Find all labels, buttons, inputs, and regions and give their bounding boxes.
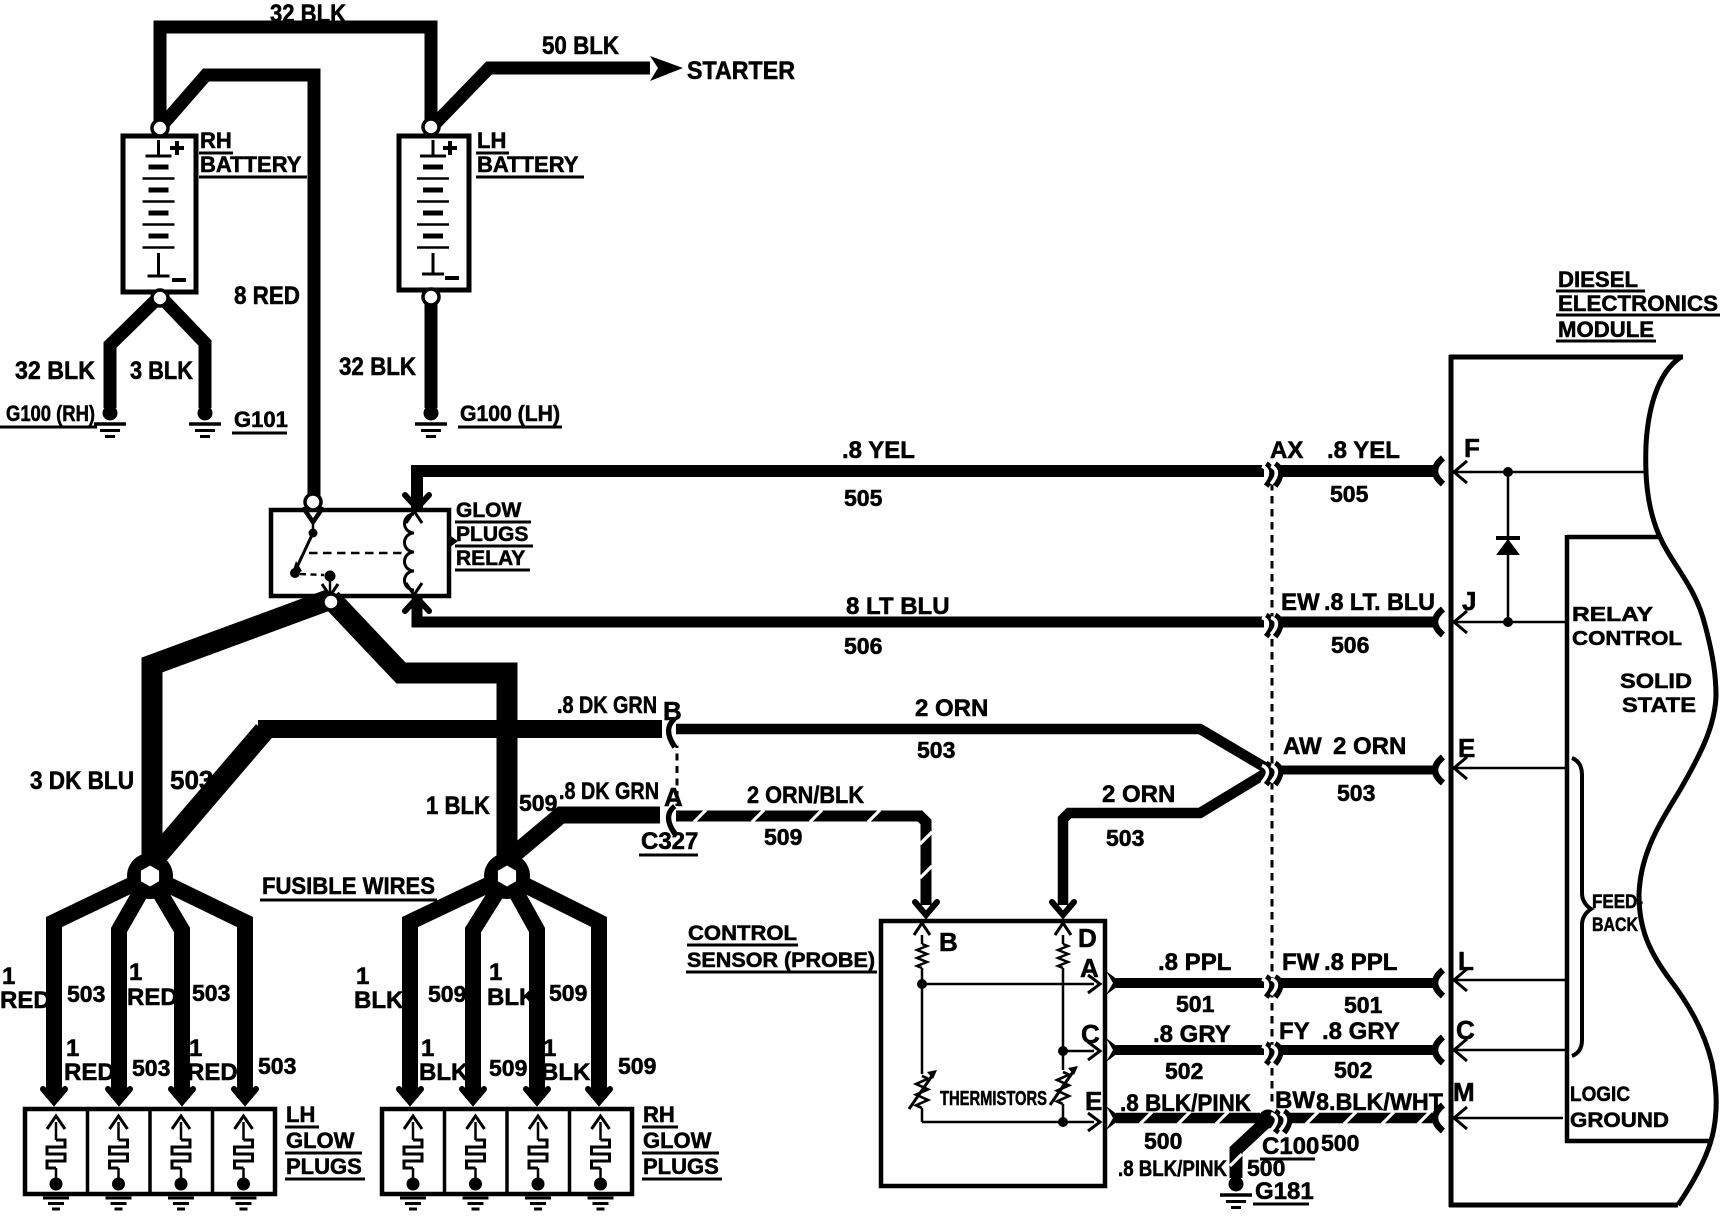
svg-text:GLOW: GLOW [643,1128,712,1153]
svg-text:1: 1 [189,1035,202,1062]
svg-text:503: 503 [67,981,105,1007]
svg-text:G100 (LH): G100 (LH) [460,401,560,426]
svg-text:B: B [939,927,958,957]
svg-text:G101: G101 [234,407,288,432]
svg-text:.8 PPL: .8 PPL [1158,949,1231,976]
svg-text:C: C [1081,1019,1100,1049]
svg-text:503: 503 [1337,780,1375,806]
svg-text:.8 GRY: .8 GRY [1322,1018,1400,1045]
svg-text:509: 509 [618,1053,656,1079]
svg-text:32 BLK: 32 BLK [15,357,95,385]
svg-text:B: B [663,696,682,726]
svg-text:505: 505 [844,485,883,511]
svg-text:1: 1 [489,959,502,986]
svg-text:32 BLK: 32 BLK [270,0,346,28]
svg-text:2 ORN/BLK: 2 ORN/BLK [747,782,865,809]
svg-text:GLOW: GLOW [456,499,521,522]
svg-text:BLK: BLK [354,987,404,1014]
svg-text:STARTER: STARTER [687,57,795,85]
svg-text:BLK: BLK [419,1059,469,1086]
svg-text:1: 1 [129,959,142,986]
svg-text:M: M [1453,1077,1475,1107]
svg-text:1: 1 [66,1035,79,1062]
svg-text:D: D [1078,923,1097,953]
svg-text:503: 503 [917,737,955,763]
svg-text:8 LT BLU: 8 LT BLU [846,593,950,620]
svg-text:FUSIBLE WIRES: FUSIBLE WIRES [262,873,435,900]
svg-text:.8 LT. BLU: .8 LT. BLU [1324,589,1435,616]
svg-text:3 BLK: 3 BLK [130,357,193,385]
svg-text:509: 509 [764,824,802,850]
svg-text:AX: AX [1270,437,1303,464]
svg-text:L: L [1458,946,1474,976]
svg-text:2 ORN: 2 ORN [1102,781,1175,808]
svg-text:FEED-: FEED- [1592,892,1643,913]
svg-text:BACK: BACK [1592,915,1638,936]
svg-text:506: 506 [844,633,882,659]
svg-text:RED: RED [64,1059,115,1086]
svg-text:C: C [1456,1015,1475,1045]
svg-text:BLK: BLK [487,984,537,1011]
svg-text:509: 509 [549,980,587,1006]
svg-text:A: A [664,782,683,812]
svg-text:50 BLK: 50 BLK [542,32,619,60]
svg-text:MODULE: MODULE [1558,317,1654,342]
svg-text:GLOW: GLOW [286,1128,355,1153]
svg-text:DIESEL: DIESEL [1558,267,1638,292]
svg-text:.8 PPL: .8 PPL [1324,949,1397,976]
svg-text:THERMISTORS: THERMISTORS [940,1088,1047,1110]
svg-text:3 DK BLU: 3 DK BLU [30,767,134,795]
svg-text:503: 503 [192,980,230,1006]
svg-text:503: 503 [170,765,213,795]
svg-text:J: J [1462,586,1476,616]
svg-text:509: 509 [519,790,557,816]
svg-text:8.BLK/WHT: 8.BLK/WHT [1316,1089,1443,1116]
svg-text:G100 (RH): G100 (RH) [6,401,95,426]
svg-text:1: 1 [356,963,369,990]
svg-text:502: 502 [1334,1057,1372,1083]
svg-text:LH: LH [286,1102,315,1127]
svg-text:503: 503 [132,1055,170,1081]
svg-text:501: 501 [1176,991,1215,1017]
svg-text:1 BLK: 1 BLK [426,792,490,820]
svg-text:BLK: BLK [541,1059,591,1086]
svg-text:E: E [1085,1086,1102,1116]
svg-text:RED: RED [127,984,178,1011]
svg-text:509: 509 [489,1055,527,1081]
svg-text:503: 503 [1106,825,1144,851]
svg-text:.8 BLK/PINK: .8 BLK/PINK [1120,1090,1252,1117]
svg-text:AW: AW [1283,733,1322,760]
svg-text:500: 500 [1144,1128,1182,1154]
svg-text:A: A [1080,953,1099,983]
svg-text:.8 YEL: .8 YEL [1327,437,1400,464]
svg-text:RH: RH [643,1102,675,1127]
svg-text:GROUND: GROUND [1570,1109,1669,1132]
svg-text:BATTERY: BATTERY [477,152,579,177]
svg-text:503: 503 [258,1053,296,1079]
svg-text:BW: BW [1275,1087,1315,1114]
svg-text:F: F [1464,433,1480,463]
svg-text:.8 GRY: .8 GRY [1153,1021,1231,1048]
svg-text:509: 509 [428,981,466,1007]
svg-text:32 BLK: 32 BLK [339,353,416,381]
svg-text:1: 1 [2,963,15,990]
svg-text:RELAY: RELAY [456,547,525,570]
svg-text:2 ORN: 2 ORN [1333,733,1406,760]
svg-text:1: 1 [543,1035,556,1062]
svg-text:SENSOR (PROBE): SENSOR (PROBE) [687,949,875,972]
svg-text:CONTROL: CONTROL [688,922,797,945]
svg-text:G181: G181 [1255,1178,1314,1205]
svg-text:8 RED: 8 RED [234,282,300,310]
svg-text:PLUGS: PLUGS [286,1154,362,1179]
svg-text:2 ORN: 2 ORN [915,695,988,722]
svg-text:FW: FW [1282,949,1320,976]
svg-text:.8 BLK/PINK: .8 BLK/PINK [1118,1156,1227,1181]
svg-text:.8 DK GRN: .8 DK GRN [557,692,657,719]
svg-text:STATE: STATE [1622,694,1696,717]
svg-text:BATTERY: BATTERY [200,152,302,177]
svg-text:E: E [1458,733,1475,763]
svg-text:.8 DK GRN: .8 DK GRN [559,778,659,805]
svg-text:500: 500 [1321,1130,1359,1156]
svg-text:RED: RED [187,1059,238,1086]
svg-text:LH: LH [477,128,506,153]
svg-text:PLUGS: PLUGS [456,523,528,546]
svg-text:C327: C327 [641,828,698,855]
svg-text:501: 501 [1344,992,1383,1018]
svg-text:RED: RED [0,987,51,1014]
svg-text:PLUGS: PLUGS [643,1154,719,1179]
svg-text:C100: C100 [1262,1133,1319,1160]
svg-text:LOGIC: LOGIC [1570,1083,1630,1106]
svg-text:EW: EW [1281,589,1320,616]
svg-text:RH: RH [200,128,232,153]
svg-text:CONTROL: CONTROL [1572,628,1682,650]
svg-text:1: 1 [421,1035,434,1062]
svg-text:ELECTRONICS: ELECTRONICS [1558,291,1718,316]
svg-text:RELAY: RELAY [1572,604,1654,626]
svg-text:505: 505 [1330,481,1369,507]
svg-text:502: 502 [1165,1058,1203,1084]
svg-text:506: 506 [1331,632,1369,658]
svg-text:SOLID: SOLID [1620,670,1692,693]
svg-text:.8 YEL: .8 YEL [842,437,915,464]
svg-text:FY: FY [1279,1018,1310,1045]
